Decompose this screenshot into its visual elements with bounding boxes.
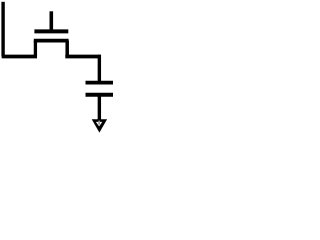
transistor Q1 gate plate [34,29,68,33]
transistor Q1 gate lead [49,11,53,31]
transistor Q1 drain lead (right step) [65,41,69,57]
ground arrow (open arrowhead) [92,119,107,132]
wire: right horizontal [65,55,99,59]
wire: bottom-left horizontal [2,55,37,59]
capacitor C1 top plate [86,81,114,85]
capacitor C1 bottom plate [86,93,114,97]
transistor Q1 source lead (left step) [34,41,37,57]
transistor Q1 channel bar [34,39,69,43]
wire: left vertical from top [1,2,4,57]
wire: vertical down to capacitor [98,55,101,83]
wire: lead below capacitor [98,95,101,120]
